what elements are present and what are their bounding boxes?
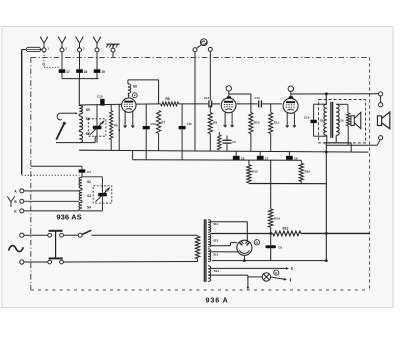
svg-text:R14: R14 [274,217,280,221]
svg-text:R13: R13 [283,226,289,230]
svg-text:S12: S12 [213,239,218,243]
svg-text:S14: S14 [214,269,219,273]
svg-text:C10: C10 [187,122,193,126]
svg-text:S9: S9 [320,119,324,123]
svg-text:R9: R9 [213,121,217,125]
svg-text:C19: C19 [304,116,310,120]
svg-text:C3: C3 [105,188,109,192]
svg-text:C15: C15 [97,94,103,98]
svg-text:R12: R12 [252,170,258,174]
svg-text:17: 17 [66,70,70,74]
svg-text:936 A: 936 A [206,297,229,305]
svg-text:S2: S2 [87,180,91,184]
svg-text:S11: S11 [213,222,218,226]
svg-text:S8: S8 [133,84,137,88]
svg-text:C1: C1 [87,170,91,174]
svg-text:S3: S3 [87,194,91,198]
svg-text:C9: C9 [278,246,282,250]
svg-text:S4: S4 [87,206,91,210]
svg-text:R15: R15 [305,170,311,174]
svg-text:~: ~ [100,46,102,50]
svg-text:18: 18 [84,70,88,74]
svg-text:R6: R6 [114,124,118,128]
svg-text:S5: S5 [86,108,90,112]
svg-text:S13: S13 [213,253,218,257]
svg-text:R10: R10 [254,121,260,125]
svg-text:19: 19 [101,70,105,74]
svg-text:936 AS: 936 AS [57,213,82,222]
svg-text:C13: C13 [255,96,261,100]
svg-text:R7: R7 [161,121,165,125]
svg-text:C5: C5 [232,140,236,144]
svg-text:C8: C8 [294,156,298,160]
svg-text:C12: C12 [204,96,210,100]
svg-text:C7: C7 [265,156,269,160]
svg-text:C2: C2 [100,121,104,125]
svg-text:C6: C6 [241,156,245,160]
svg-text:S10: S10 [339,119,344,123]
svg-text:R11: R11 [274,121,280,125]
svg-text:C16: C16 [151,122,157,126]
svg-text:R8: R8 [166,97,170,101]
